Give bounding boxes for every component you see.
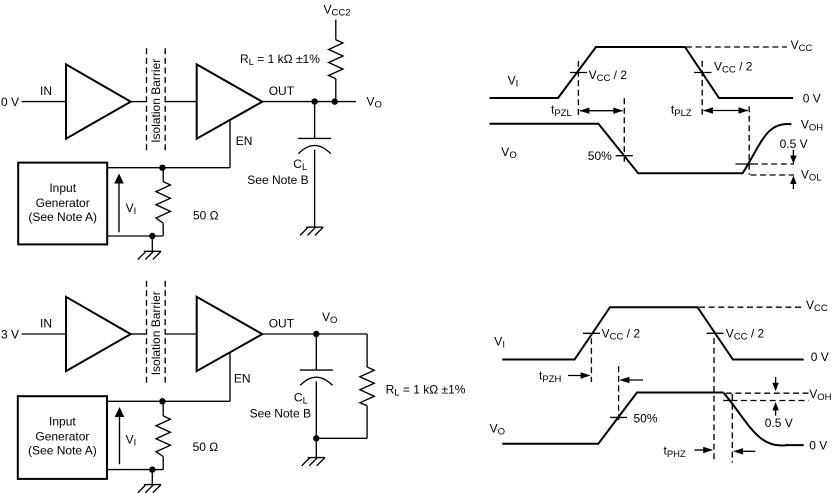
svg-text:VI: VI (126, 201, 137, 217)
svg-text:(See Note A): (See Note A) (28, 444, 97, 458)
svg-text:VCC / 2: VCC / 2 (589, 68, 628, 84)
svg-text:VO: VO (490, 422, 505, 438)
svg-text:See Note B: See Note B (247, 173, 308, 187)
svg-text:VO: VO (367, 94, 382, 110)
svg-text:VOL: VOL (801, 168, 822, 184)
svg-text:VI: VI (126, 433, 137, 449)
svg-text:VI: VI (508, 74, 519, 90)
svg-text:VOH: VOH (809, 387, 831, 403)
svg-text:0 V: 0 V (1, 95, 19, 109)
svg-text:0 V: 0 V (803, 91, 821, 105)
svg-text:50%: 50% (634, 412, 658, 426)
svg-text:EN: EN (236, 134, 253, 148)
svg-text:50 Ω: 50 Ω (193, 209, 219, 223)
svg-text:IN: IN (40, 84, 52, 98)
svg-text:50 Ω: 50 Ω (193, 440, 219, 454)
svg-text:0 V: 0 V (809, 439, 827, 453)
svg-text:0.5 V: 0.5 V (765, 416, 793, 430)
svg-text:VCC: VCC (806, 298, 828, 314)
svg-text:RL = 1 kΩ ±1%: RL = 1 kΩ ±1% (240, 52, 320, 68)
svg-text:VCC / 2: VCC / 2 (602, 327, 641, 343)
svg-text:VI: VI (494, 335, 505, 351)
svg-text:(See Note A): (See Note A) (28, 210, 97, 224)
svg-text:tPLZ: tPLZ (671, 103, 692, 120)
svg-text:VO: VO (501, 145, 516, 161)
svg-text:RL = 1 kΩ ±1%: RL = 1 kΩ ±1% (386, 382, 466, 398)
svg-text:0.5 V: 0.5 V (780, 137, 808, 151)
svg-text:IN: IN (40, 317, 52, 331)
svg-text:VOH: VOH (801, 118, 823, 134)
svg-text:tPZL: tPZL (551, 103, 572, 120)
svg-text:Generator: Generator (35, 430, 89, 444)
svg-text:tPZH: tPZH (539, 369, 561, 386)
svg-text:50%: 50% (588, 149, 612, 163)
svg-text:VCC / 2: VCC / 2 (714, 60, 753, 76)
svg-text:See Note B: See Note B (250, 407, 311, 421)
svg-text:Isolation Barrier: Isolation Barrier (149, 291, 163, 375)
svg-text:tPHZ: tPHZ (664, 444, 687, 461)
svg-text:Input: Input (49, 415, 76, 429)
svg-text:CL: CL (293, 157, 307, 173)
svg-text:0 V: 0 V (811, 350, 829, 364)
svg-text:3 V: 3 V (1, 327, 19, 341)
svg-text:VCC / 2: VCC / 2 (726, 327, 765, 343)
svg-text:OUT: OUT (269, 317, 295, 331)
svg-text:VCC2: VCC2 (324, 3, 351, 19)
svg-text:EN: EN (234, 372, 251, 386)
svg-text:Generator: Generator (36, 196, 90, 210)
svg-text:OUT: OUT (269, 84, 295, 98)
svg-text:VO: VO (322, 310, 337, 326)
svg-text:Input: Input (49, 181, 76, 195)
svg-text:VCC: VCC (791, 38, 813, 54)
svg-text:CL: CL (294, 391, 308, 407)
svg-text:Isolation Barrier: Isolation Barrier (149, 59, 163, 143)
